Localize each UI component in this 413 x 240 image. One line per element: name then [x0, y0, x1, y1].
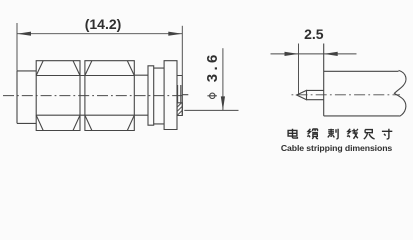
stripped center conductor tip cone: [297, 90, 307, 99]
neck between nut and body: [80, 76, 85, 116]
center pin stub: [182, 94, 188, 96]
gasket groove: [154, 68, 164, 124]
cable jacket outline: [324, 71, 400, 116]
svg-text:Cable stripping dimensions: Cable stripping dimensions: [281, 143, 393, 153]
svg-text:2.5: 2.5: [304, 26, 324, 42]
dimension 2.5 right arrow: [324, 52, 338, 56]
phi symbol: [207, 93, 217, 98]
dimension (14.2) right arrow: [168, 32, 182, 36]
dimension (14.2) dim line: [17, 33, 182, 35]
centerline left drawing: [3, 95, 182, 97]
stripped center conductor: [307, 90, 324, 99]
chinese label: cun: [382, 129, 392, 139]
washer plate 1: [148, 66, 154, 125]
cable left face / extension line: [323, 44, 325, 116]
section hatch block: [177, 103, 182, 116]
dimension (14.2) left arrow: [17, 32, 31, 36]
dimension 2.5 dim line: [271, 53, 357, 55]
chinese label: chi: [364, 130, 375, 140]
centerline right drawing: [292, 94, 401, 96]
flange plate 2: [164, 61, 177, 130]
cable break S-curve: [394, 70, 406, 116]
phi 3.6 arrow: [221, 96, 225, 110]
phi 3.6 dimension line: [222, 48, 224, 110]
connector front cylinder: [17, 71, 36, 124]
chinese label: xian: [347, 129, 358, 139]
coupling nut hex: [36, 61, 80, 131]
dimension 2.5 left extension line: [298, 44, 300, 95]
chinese label: bo: [328, 129, 338, 139]
body hex: [85, 61, 134, 131]
dimension 2.5 left arrow: [285, 52, 299, 56]
svg-text:(14.2): (14.2): [85, 16, 122, 32]
chinese label: dian: [288, 129, 297, 138]
solder pot slot: [178, 85, 181, 103]
phi 3.6 extension line: [184, 109, 238, 111]
dimension (14.2) right extension line: [181, 26, 183, 76]
rear solder pot cylinder: [177, 76, 182, 116]
rear neck cylinder: [134, 75, 148, 115]
svg-text:3.6: 3.6: [204, 51, 221, 82]
dimension (14.2) left extension line: [16, 23, 18, 71]
chinese label: lan: [307, 129, 318, 139]
